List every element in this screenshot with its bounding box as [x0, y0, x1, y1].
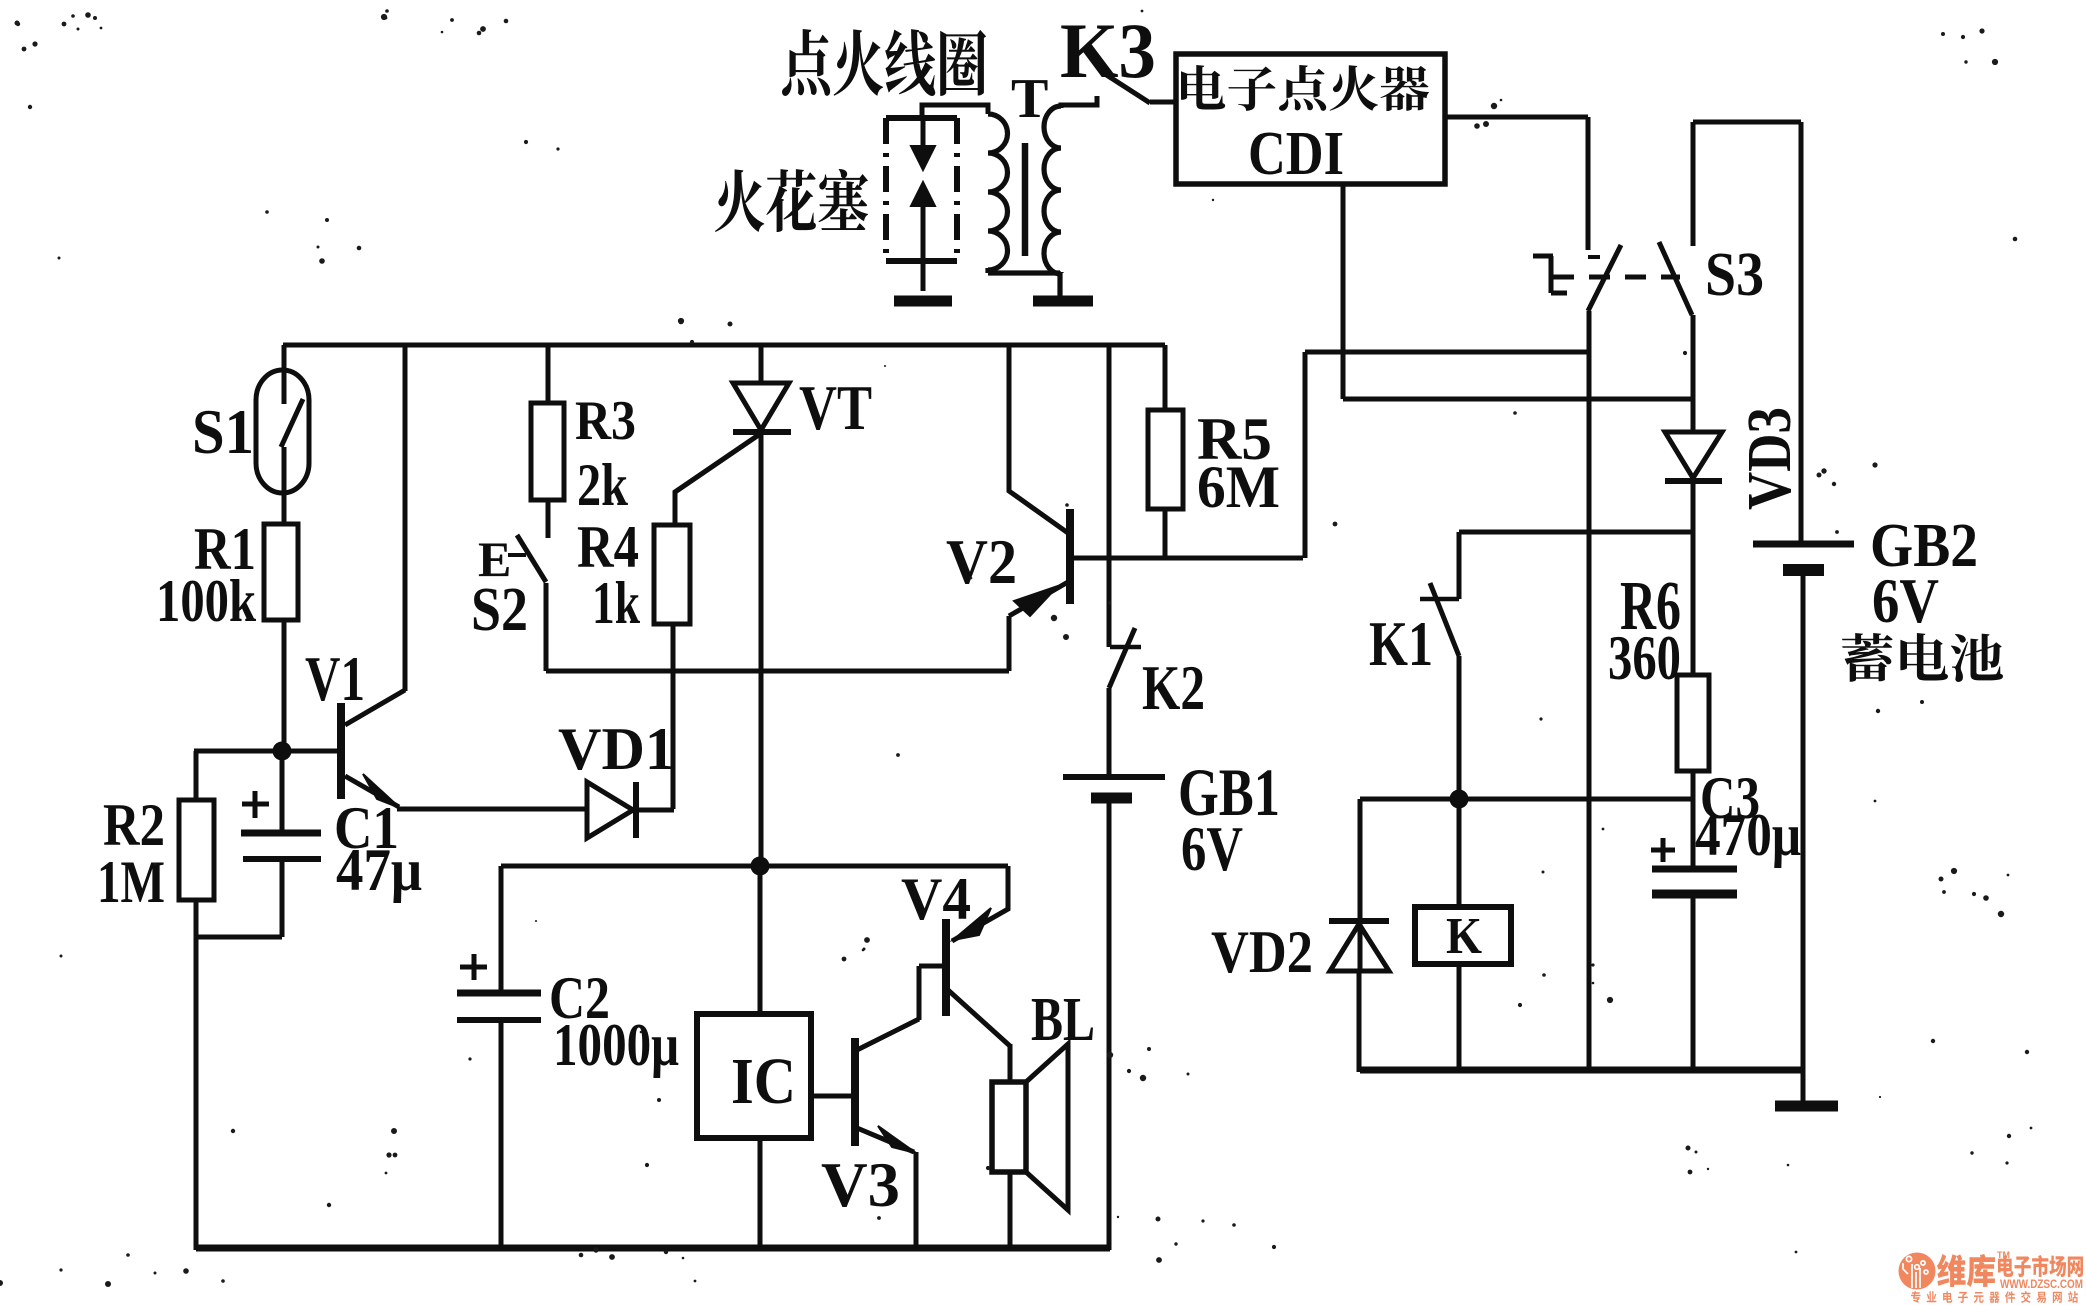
wire VD1 cathode to R4 line: [633, 808, 674, 813]
node B dot: [751, 857, 770, 876]
label 蓄电池: [1842, 633, 2003, 682]
svg-text:470μ: 470μ: [1695, 802, 1801, 868]
watermark 维库: [1937, 1254, 1995, 1287]
transformer T secondary winding: [1044, 106, 1061, 274]
wire CDI right to S3 branch: [1445, 115, 1588, 120]
svg-text:K2: K2: [1142, 652, 1205, 723]
transistor V2: [1009, 345, 1070, 671]
svg-text:K: K: [1446, 908, 1482, 965]
wire VT anode riser: [759, 345, 764, 383]
svg-text:S2: S2: [471, 576, 528, 644]
wire riser x1305 to V2 base row: [1303, 352, 1308, 558]
transistor V4: [946, 866, 1010, 1082]
ground under spark plug: [894, 296, 952, 307]
diode VD3: [1665, 432, 1722, 481]
wire VD3 to R6: [1691, 481, 1696, 675]
svg-text:47μ: 47μ: [336, 837, 422, 903]
svg-text:K3: K3: [1060, 7, 1156, 94]
svg-text:BL: BL: [1031, 986, 1095, 1054]
wire S3 right pole to VD3: [1691, 315, 1696, 432]
wire relay K bottom: [1457, 964, 1462, 1072]
wire IC output to V3 base: [811, 1094, 853, 1099]
wire BL bottom: [1008, 1172, 1013, 1250]
diode VD1: [587, 782, 636, 838]
wire K1 to relay K: [1457, 656, 1462, 907]
svg-text:1k: 1k: [592, 570, 640, 636]
svg-text:T: T: [1011, 68, 1048, 130]
label 电子点火器: [1181, 65, 1429, 111]
wire V2 base row y558: [1072, 556, 1303, 561]
capacitor C2: [457, 866, 541, 1250]
wire IC bottom lead: [758, 1138, 763, 1250]
switch K3 lever: [1105, 74, 1150, 103]
svg-text:6M: 6M: [1197, 454, 1280, 520]
svg-text:1M: 1M: [97, 849, 165, 915]
capacitor C3 plus sign: [1651, 838, 1675, 862]
switch S3 left pole: [1588, 117, 1621, 311]
switch S3 right pole: [1659, 122, 1693, 315]
svg-text:360: 360: [1608, 622, 1681, 693]
svg-text:V3: V3: [821, 1149, 900, 1220]
wire R5 riser: [1163, 345, 1168, 410]
switch S1 (tilt switch oval): [256, 370, 309, 493]
transformer T core: [1022, 143, 1029, 256]
wire VD2 top lead: [1358, 799, 1363, 972]
relay K box: [1415, 907, 1511, 964]
svg-text:VD3: VD3: [1736, 407, 1804, 510]
wire R2 bottom: [194, 900, 199, 1250]
switch S3 linkage dashes: [1553, 275, 1680, 280]
wire row y352 to S3 left pole: [1305, 350, 1589, 355]
resistor R4: [654, 525, 690, 624]
switch K2: [1109, 628, 1141, 688]
svg-text:S3: S3: [1705, 241, 1764, 309]
svg-text:K1: K1: [1369, 608, 1433, 679]
battery GB2: [1753, 544, 1854, 570]
wire bottom bus left circuit: [196, 1245, 1110, 1252]
label 火花塞: [715, 169, 868, 232]
spark gap arrow down: [911, 120, 935, 170]
svg-text:6V: 6V: [1181, 813, 1243, 884]
svg-text:IC: IC: [731, 1045, 796, 1118]
switch K1: [1420, 532, 1459, 656]
svg-text:CDI: CDI: [1248, 120, 1344, 188]
wire V1 emitter to VD1: [397, 807, 587, 812]
wire VT cathode down to node B: [759, 432, 764, 866]
svg-text:V1: V1: [305, 643, 365, 714]
wire node row y399 CDI to VD3 line: [1343, 397, 1693, 402]
resistor R1: [264, 524, 298, 620]
diode VD2: [1329, 921, 1389, 971]
spark gap arrow up: [911, 182, 935, 291]
svg-text:100k: 100k: [156, 568, 257, 634]
wire R5 bottom: [1163, 509, 1168, 558]
capacitor C1 plus sign: [242, 791, 269, 818]
wire node A down-left to R2: [194, 751, 199, 800]
svg-text:VD2: VD2: [1211, 919, 1313, 985]
wire spark plug to transformer primary: [922, 105, 988, 118]
wire K2 to GB1: [1107, 688, 1112, 775]
watermark slogan: [1911, 1291, 2078, 1303]
svg-text:1000μ: 1000μ: [553, 1012, 679, 1078]
wire K1 row y532: [1459, 530, 1693, 535]
wire S3 right top to GB2: [1693, 122, 1801, 541]
watermark 电子市场网: [1998, 1255, 2083, 1277]
thyristor VT: [675, 383, 791, 525]
svg-text:2k: 2k: [577, 452, 629, 518]
wire R3 to S2 contact: [546, 500, 551, 538]
ground under transformer: [1033, 296, 1093, 307]
wire row y671 S2 to V2 emitter: [546, 669, 1009, 674]
wire S1 to R1: [282, 447, 287, 524]
CDI box (电子点火器): [1176, 54, 1445, 184]
wire R6 bottom to C3: [1691, 771, 1696, 866]
svg-text:VD1: VD1: [558, 716, 675, 782]
wire R4 bottom to VD1 row: [671, 624, 676, 809]
wire K2 riser: [1107, 345, 1112, 647]
ground right: [1775, 1101, 1838, 1112]
node A dot: [273, 742, 292, 761]
wire VD2 bottom lead: [1357, 971, 1362, 1072]
svg-text:V4: V4: [901, 866, 971, 932]
transformer T primary winding: [988, 114, 1008, 270]
resistor R2: [179, 800, 214, 900]
battery GB1: [1063, 777, 1165, 798]
svg-text:WWW.DZSC.COM: WWW.DZSC.COM: [2000, 1279, 2083, 1291]
wire R3 top lead: [546, 345, 551, 403]
label 点火线圈: [782, 29, 986, 96]
resistor R6: [1677, 675, 1709, 771]
wire top bus y345: [283, 343, 1165, 348]
resistor R3: [531, 403, 564, 500]
switch S2 pushbutton: [508, 535, 546, 582]
resistor R5: [1148, 410, 1183, 509]
loudspeaker BL: [992, 1044, 1068, 1210]
node C dot: [1450, 790, 1469, 809]
wire S2 bottom: [544, 583, 549, 671]
svg-text:V2: V2: [946, 526, 1017, 597]
capacitor C3: [1652, 869, 1737, 1072]
wire GB1 negative down: [1107, 803, 1112, 1250]
wire IC top lead: [758, 866, 763, 1014]
wire bus to ground: [1801, 1070, 1806, 1102]
wire bottom bus right circuit: [1360, 1067, 1803, 1074]
wire S3 left pole down to bottom bus: [1587, 311, 1592, 1070]
svg-text:6V: 6V: [1872, 565, 1939, 636]
spark plug box (火花塞): [886, 118, 957, 261]
wire row y866 C2 to V4 emitter: [501, 864, 1008, 869]
transistor V3: [855, 966, 944, 1250]
capacitor C2 plus sign: [460, 954, 487, 980]
wire C1 bottom to R2 line: [196, 935, 282, 940]
svg-text:S1: S1: [192, 396, 254, 467]
wire K3 to CDI box: [1150, 100, 1176, 105]
wire R1 to node A: [282, 620, 287, 751]
switch S3 manual actuator bracket: [1533, 256, 1567, 293]
wire S1 top lead: [282, 345, 287, 404]
wire transformer bottom: [988, 268, 1061, 296]
wire node A to V1 base: [194, 749, 341, 754]
wire CDI bottom lead: [1341, 184, 1346, 399]
capacitor C1: [241, 751, 321, 937]
svg-text:VT: VT: [799, 372, 872, 443]
svg-text:R3: R3: [575, 390, 636, 452]
IC box: [697, 1014, 811, 1138]
transistor V1: [341, 345, 405, 808]
wire GB2 negative down: [1801, 575, 1806, 1070]
wire row y799 VD2 to C3: [1360, 797, 1693, 802]
wire transformer secondary top to K3 contact: [1061, 96, 1097, 108]
